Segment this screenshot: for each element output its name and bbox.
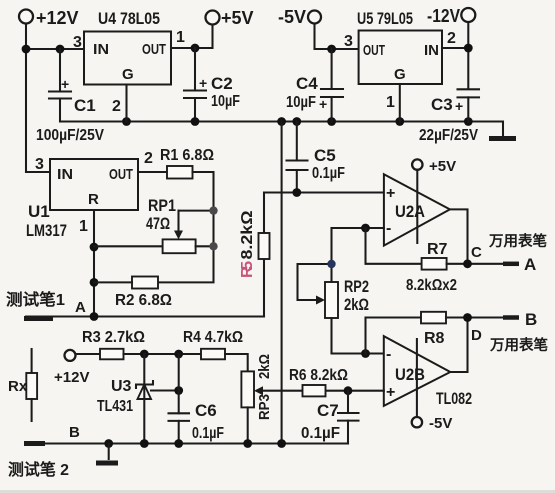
svg-text:U2B: U2B [395,365,425,384]
svg-text:R1 6.8Ω: R1 6.8Ω [160,147,214,164]
svg-text:OUT: OUT [109,166,133,183]
node junction rail/RP1 (gray) [209,242,217,250]
svg-text:R: R [88,191,99,208]
svg-text:C1: C1 [74,96,96,115]
svg-text:+: + [199,75,207,91]
svg-text:0.1µF: 0.1µF [192,425,224,442]
node junction +12V/C1 [22,45,65,54]
svg-text:-5V: -5V [429,415,452,432]
svg-text:U5 79L05: U5 79L05 [357,9,413,28]
terminal +12V (bottom reference) [54,350,89,386]
wire: U4 OUT to +5V terminal [171,25,213,48]
wire: +12V to R3 [76,353,101,355]
svg-text:8.2kΩx2: 8.2kΩx2 [406,277,457,294]
svg-text:2kΩ: 2kΩ [256,354,273,379]
node A / test pen 1 bus [6,290,264,321]
terminal -5V (top) [278,7,321,27]
wire: U4 G pin to bus [125,85,127,122]
svg-text:0.1µF: 0.1µF [301,425,340,442]
svg-text:1: 1 [386,94,395,111]
svg-text:万用表笔: 万用表笔 [488,232,547,250]
svg-text:RP3: RP3 [256,394,273,420]
resistor R7 8.2k [406,241,468,294]
svg-text:+5V: +5V [221,8,254,28]
terminal +12V (top-left) [19,8,79,28]
svg-text:R8: R8 [424,330,445,347]
svg-text:C: C [471,244,482,261]
node junction C7/R6 [344,386,353,395]
svg-text:U4 78L05: U4 78L05 [98,9,160,28]
svg-text:C2: C2 [211,74,233,93]
capacitor C7 0.1uF [301,391,359,444]
node junction U2A feedback [361,224,370,233]
wire: R5 top / U2A + input line [264,191,384,193]
node B / test pen 2 bus (bottom) [8,424,348,479]
scan shadow bottom edge [0,490,555,493]
wire: U1 R pin down to A bus [93,210,95,317]
node junction C2/U4-OUT [191,44,200,53]
regulator U1 LM317 [26,150,153,240]
regulator U5 79L05 [344,9,456,111]
svg-text:+: + [61,76,69,92]
node D label [471,327,482,344]
svg-text:万用表笔: 万用表笔 [489,336,548,354]
wire: RP1 left lead [94,245,163,247]
svg-text:IN: IN [424,42,439,59]
svg-text:+: + [455,98,463,114]
wire: U2A V+ pin [416,170,418,243]
node junction U3/R3 [140,350,149,359]
wire: U2B feedback up-right through R8 [366,318,422,354]
terminal -5V (U2B supply) [412,415,453,432]
svg-text:1: 1 [176,29,185,46]
node junction U2A out/R7 [463,259,472,268]
svg-text:U3: U3 [111,378,132,395]
svg-text:+12V: +12V [36,8,79,28]
shunt reference U3 TL431 [97,354,179,444]
svg-text:C7: C7 [317,401,339,420]
svg-text:+: + [386,185,395,202]
op-amp U2B [384,336,472,408]
node junction U2B feedback [361,349,370,358]
resistor R6 8.2k [289,367,348,396]
capacitor C6 0.1uF [169,354,225,444]
svg-text:G: G [394,66,406,83]
wire: R4 to RP3 top [225,354,248,371]
wire: top ground bus [60,122,503,137]
svg-text:2: 2 [144,150,153,167]
junctions on top ground bus [122,117,473,126]
resistor R4 4.7k [183,329,243,359]
svg-text:1: 1 [79,218,88,235]
resistor R1 6.8 ohm [160,147,214,179]
svg-text:3: 3 [73,34,82,51]
wire: +12V rail from terminal to U4 IN and down to U1 IN [26,24,84,173]
node junction C4/U5-OUT [327,45,336,54]
svg-text:R2 6.8Ω: R2 6.8Ω [115,292,172,309]
wire: -5V terminal to U5 OUT [315,24,359,50]
svg-text:+: + [319,96,327,112]
svg-text:G: G [122,66,134,83]
svg-text:B: B [525,310,537,329]
svg-text:R6 8.2kΩ: R6 8.2kΩ [289,367,348,384]
svg-text:OUT: OUT [363,42,385,59]
node junction C6/R4 [174,350,183,359]
svg-text:22µF/25V: 22µF/25V [419,127,478,144]
junctions on bottom bus [104,439,286,448]
wire: RP3 wiper / R6 line to U2B + input [303,390,384,392]
wire: U2A feedback down-right through R7 [366,228,422,264]
wire: U2B output to node D and terminal B [450,318,504,373]
node junction C5/+input [292,188,301,197]
svg-text:A: A [75,299,86,316]
wire: U5 G pin to bus [399,84,401,122]
svg-text:IN: IN [57,166,73,183]
potentiometer RP2 2k [298,228,370,318]
wire: -12V to U5 IN and down to C3 [442,22,468,89]
svg-text:IN: IN [93,41,109,58]
svg-text:10µF: 10µF [211,93,240,110]
node junction -12V/U5-IN [464,44,473,53]
svg-text:C6: C6 [195,401,217,420]
svg-text:R3 2.7kΩ: R3 2.7kΩ [82,329,145,346]
node junction U2B out/R8 [463,313,472,322]
svg-text:RP1: RP1 [148,196,176,215]
capacitor C1 100uF/25V [36,49,104,144]
op-amp U2A [384,174,450,245]
terminal B (multimeter pen) [489,310,548,354]
regulator U4 78L05 [73,9,185,115]
svg-text:10µF: 10µF [286,94,316,111]
node junction R-pin/R2 [90,278,99,287]
wire: RP2 bottom to U2B - input [332,318,384,354]
svg-text:-5V: -5V [278,7,306,27]
capacitor C3 22uF/25V [419,89,479,144]
potentiometer RP1 47 ohm [146,196,214,253]
node junction RP2 wiper (blue) [327,260,335,268]
wire: U2A output to node C and terminal A [450,209,504,263]
svg-text:测试笔 2: 测试笔 2 [8,460,69,479]
wire: RP1 right lead [196,245,214,247]
capacitor C2 10uF [184,48,240,122]
svg-text:C5: C5 [314,146,336,165]
svg-text:100µF/25V: 100µF/25V [36,127,104,144]
wire: R3 to R4 [124,353,202,355]
svg-text:R7: R7 [427,241,448,258]
capacitor C5 0.1uF [287,122,346,193]
svg-text:+12V: +12V [54,369,89,386]
terminal -12V (top-right) [427,6,475,26]
wire: U2A - input from RP2 top [332,227,384,229]
resistor R3 2.7k [82,329,145,359]
svg-text:B: B [69,424,80,441]
svg-text:TL431: TL431 [97,398,133,415]
wire: R1 to right rail down to R2 [158,172,214,282]
svg-text:U1: U1 [28,202,50,221]
terminal +5V (U2A supply) [412,158,456,175]
svg-text:3: 3 [35,156,44,173]
svg-text:C3: C3 [431,95,453,114]
potentiometer RP3 2k (vertical) [241,354,302,444]
svg-text:2: 2 [447,30,456,47]
resistor Rx (unknown, between test pens) [8,349,37,421]
svg-text:-12V: -12V [427,6,460,26]
svg-text:Rx: Rx [8,378,28,395]
svg-text:2: 2 [112,98,121,115]
terminal A (multimeter pen) [488,232,547,274]
svg-text:3: 3 [344,33,353,50]
node junction rail/wiper (gray) [209,206,217,214]
svg-text:LM317: LM317 [26,221,67,240]
svg-text:U2A: U2A [395,202,425,221]
svg-text:OUT: OUT [142,41,166,58]
resistor R5 8.2k (vertical) [239,193,270,317]
svg-text:D: D [471,327,482,344]
svg-text:0.1µF: 0.1µF [312,165,345,182]
svg-text:R5: R5 [239,261,256,278]
wire: U2B V- pin [416,339,418,417]
ground (bottom) [96,444,118,464]
svg-text:R4 4.7kΩ: R4 4.7kΩ [183,329,243,346]
svg-text:RP2: RP2 [344,277,369,296]
resistor R8 8.2k [421,312,468,347]
svg-text:TL082: TL082 [436,389,472,408]
svg-text:8.2kΩ: 8.2kΩ [239,210,256,259]
svg-text:2kΩ: 2kΩ [344,295,369,314]
capacitor C4 10uF [286,49,343,122]
terminal +5V (top) [206,8,254,28]
svg-text:-: - [386,346,391,363]
resistor R2 6.8 ohm [94,277,172,310]
wire: center ground rail (top bus to bottom bus) [281,122,283,444]
svg-text:+: + [386,384,395,401]
svg-text:A: A [524,255,536,274]
svg-text:C4: C4 [296,74,318,93]
node junction R-pin/RP1 [90,243,99,252]
svg-text:测试笔1: 测试笔1 [6,290,65,309]
ground (top-right) [489,136,516,141]
svg-text:47Ω: 47Ω [146,214,170,233]
wire: U1 OUT to R1 [138,171,167,173]
svg-text:-: - [386,220,391,237]
node C label [471,244,482,261]
node junction U3 ref/C6 [174,386,183,395]
svg-text:+5V: +5V [429,158,456,175]
